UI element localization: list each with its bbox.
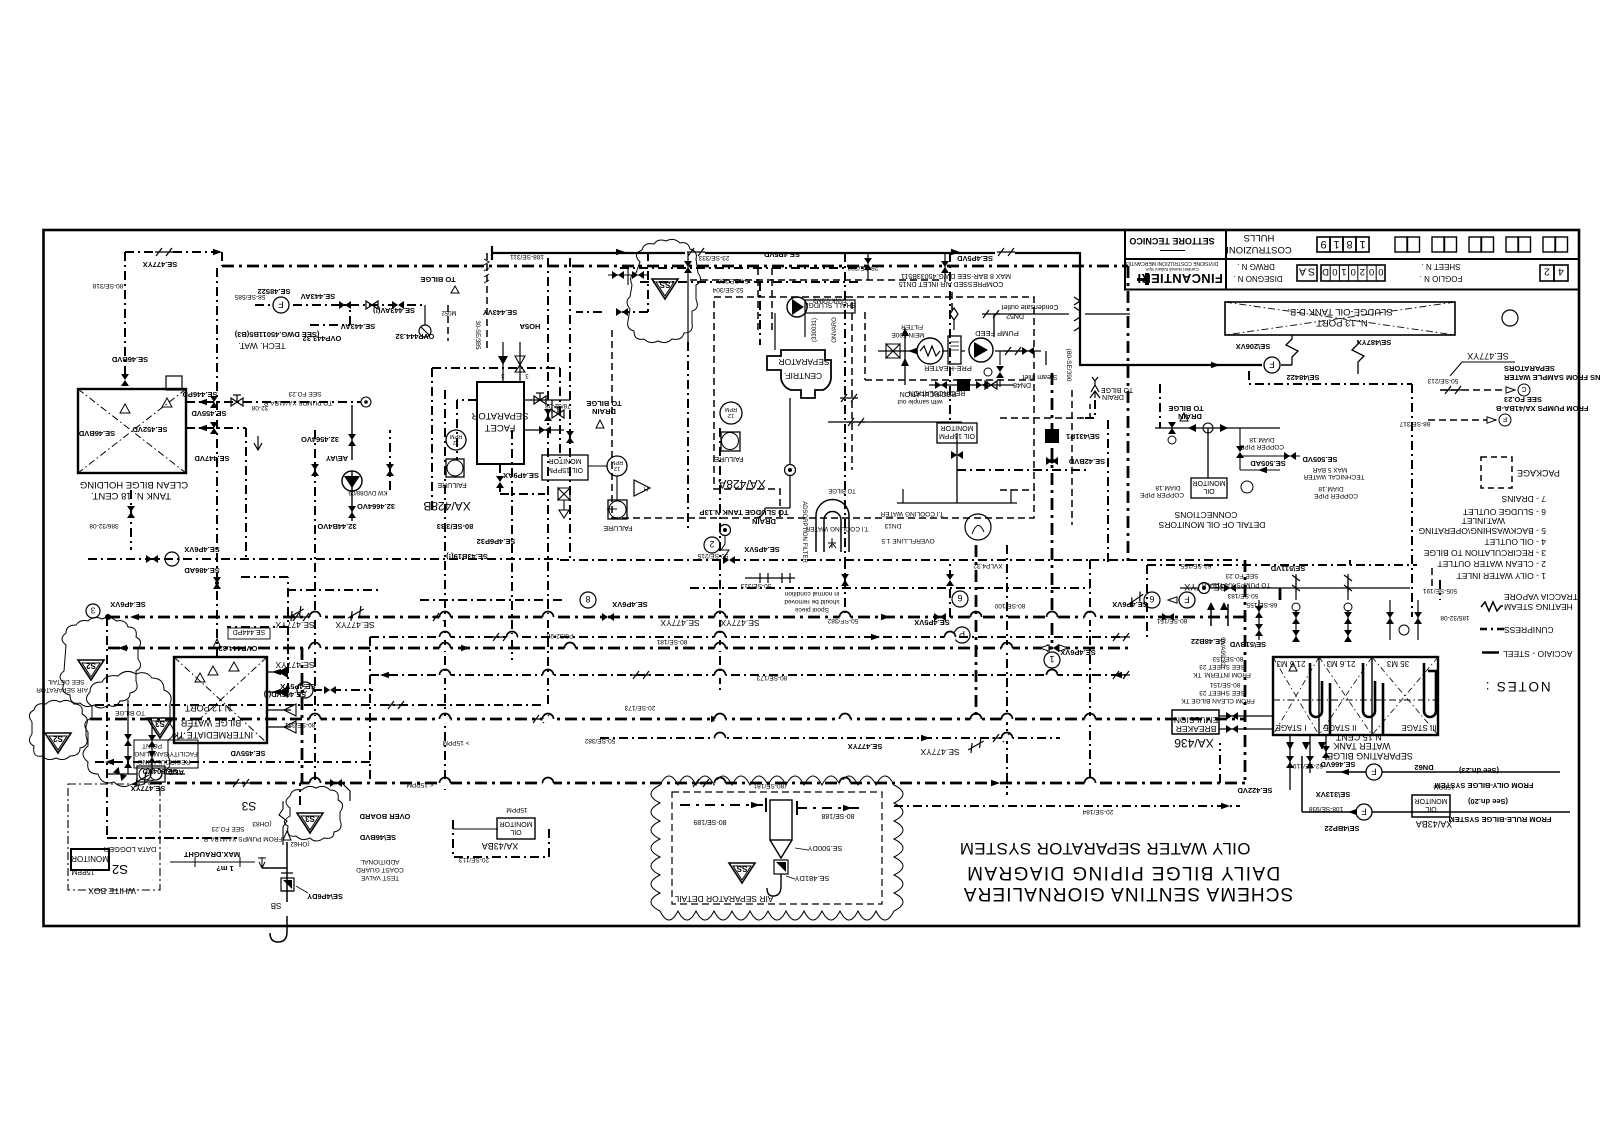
svg-text:SE.4P6VX: SE.4P6VX [184,545,219,554]
svg-text:COPPER PIPE: COPPER PIPE [1313,492,1358,499]
svg-text:9: 9 [1320,238,1326,250]
svg-text:SE.447VD: SE.447VD [194,454,230,463]
svg-text:II STAGE: II STAGE [1323,723,1356,732]
svg-text:SE.455VD: SE.455VD [230,749,266,758]
svg-text:SE\4P6DY: SE\4P6DY [307,892,343,901]
svg-text:III STAGE: III STAGE [1401,723,1436,732]
svg-text:SE.477YX: SE.477YX [275,620,315,630]
svg-text:DRAIN: DRAIN [1102,393,1124,400]
svg-text:1: 1 [1341,266,1346,277]
svg-text:BREAKER: BREAKER [1176,724,1217,734]
svg-text:0: 0 [1378,266,1383,277]
svg-text:DIAM.18: DIAM.18 [1155,484,1181,491]
svg-text:OVP443.32: OVP443.32 [303,334,342,343]
svg-text:T.I COOLING WATER: T.I COOLING WATER [880,510,944,517]
svg-text:FOGLIO N .: FOGLIO N . [1420,274,1463,283]
svg-text:188-SE/311: 188-SE/311 [510,253,544,260]
svg-text:FACILITY\SAMPLING: FACILITY\SAMPLING [134,750,198,757]
svg-text:Condensate outlet: Condensate outlet [1002,303,1059,310]
svg-text:3: 3 [90,606,95,615]
svg-text:SE.4P5VX: SE.4P5VX [744,545,779,554]
svg-text:SEE FO.23: SEE FO.23 [288,390,321,397]
svg-text:T.I COOLING WATER: T.I COOLING WATER [805,525,869,532]
svg-text:SEPARATING BILGE: SEPARATING BILGE [1327,751,1413,761]
svg-text:DETAIL OF OIL MONITORS: DETAIL OF OIL MONITORS [1158,520,1265,530]
svg-text:SE.505AD: SE.505AD [1250,459,1286,468]
svg-text:ONVARO: ONVARO [832,317,838,343]
svg-text:CLEAN BILGE HOLDING: CLEAN BILGE HOLDING [80,479,188,490]
svg-text:with sample out: with sample out [897,398,943,405]
svg-text:5 - BACKWASHING\OPERATING: 5 - BACKWASHING\OPERATING [1418,526,1546,536]
svg-text:S2: S2 [53,734,63,743]
svg-text:20-SE/113: 20-SE/113 [458,856,489,863]
svg-text:SE.500DY: SE.500DY [807,844,842,853]
svg-text:SCHEMA SENTINA GIORNALIERA: SCHEMA SENTINA GIORNALIERA [963,883,1294,904]
svg-text:RECIRCULATING: RECIRCULATING [138,758,191,765]
svg-text:SE.46BVD: SE.46BVD [111,355,148,364]
svg-text:21.6 M3: 21.6 M3 [1326,659,1355,668]
svg-text:SE.4P5VD: SE.4P5VD [763,250,799,259]
svg-text:DAILY BILGE PIPING DIAGRAM: DAILY BILGE PIPING DIAGRAM [966,862,1280,883]
svg-text:78/32-08: 78/32-08 [545,402,571,409]
svg-text:2 - CLEAN WATER OUTLET: 2 - CLEAN WATER OUTLET [1437,559,1546,569]
svg-text:80-SE/153: 80-SE/153 [1212,655,1243,662]
svg-text:RPM: RPM [449,433,462,439]
svg-text:15PPM: 15PPM [71,868,94,875]
svg-text:CUNIPRESS: CUNIPRESS [1504,625,1554,635]
svg-text:AIR SEPARATOR: AIR SEPARATOR [36,686,88,693]
svg-text:FROM OILY-BILGE SYSTEM: FROM OILY-BILGE SYSTEM [1435,781,1534,790]
svg-text:80-SE/188: 80-SE/188 [821,812,854,819]
svg-text:HO5A: HO5A [519,322,540,331]
svg-text:SHEET N .: SHEET N . [1422,262,1461,271]
svg-text:SE\487YX: SE\487YX [1357,338,1392,347]
svg-text:SEE FO.23: SEE FO.23 [211,825,244,832]
svg-text:M052: M052 [441,309,457,315]
svg-text:2: 2 [1544,266,1550,278]
svg-text:AE\AY: AE\AY [326,454,348,463]
svg-text:SE.477YX: SE.477YX [143,260,178,269]
svg-text:1: 1 [1333,238,1339,250]
svg-text:80-SE/173: 80-SE/173 [756,674,787,681]
svg-text:SE.466VD: SE.466VD [1320,760,1356,769]
svg-text:OIL: OIL [1203,487,1214,494]
svg-text:AIR SEPARATOR DETAIL: AIR SEPARATOR DETAIL [674,894,773,904]
svg-text:XA/43BA: XA/43BA [1416,819,1453,829]
svg-text:SE.477YX: SE.477YX [920,747,960,757]
svg-text:PRE-HEATER: PRE-HEATER [924,364,972,373]
svg-text:12: 12 [728,412,734,418]
svg-text:20-SE/184: 20-SE/184 [1082,808,1113,815]
svg-text:SLUDGE-OIL TANK D.B.: SLUDGE-OIL TANK D.B. [1287,306,1392,317]
svg-text:SS: SS [736,864,747,873]
svg-text:COSTRUZIONI: COSTRUZIONI [1226,244,1291,255]
svg-text:SE.422VD: SE.422VD [1237,786,1273,795]
svg-text:OVERFL.LINE 1.5: OVERFL.LINE 1.5 [881,537,934,544]
svg-text:SE.443VY: SE.443VY [483,308,518,317]
svg-text:SE.443AV(!): SE.443AV(!) [373,306,415,315]
svg-text:1: 1 [1049,654,1054,664]
svg-text:S3: S3 [241,799,256,813]
svg-text:P: P [959,629,965,639]
svg-text:15PPM: 15PPM [506,806,527,813]
svg-text:0: 0 [1351,266,1356,277]
svg-text:SE\511VD: SE\511VD [1270,564,1305,573]
svg-text:< 15PPM: < 15PPM [407,781,434,788]
svg-text:HEATING STEAM: HEATING STEAM [1504,602,1573,612]
svg-text:50-SE/183: 50-SE/183 [1227,592,1258,599]
svg-text:68-SE/155: 68-SE/155 [1246,601,1277,608]
svg-text:SEE DETAIL: SEE DETAIL [47,678,84,685]
svg-text:XVLP4.32: XVLP4.32 [973,562,1003,569]
svg-text:TECHNICAL WATER: TECHNICAL WATER [1303,473,1364,480]
svg-text:88-SE/317: 88-SE/317 [1399,420,1430,427]
svg-text:80-SE/151: 80-SE/151 [1209,681,1240,688]
svg-text:SE.443AV: SE.443AV [341,322,375,331]
svg-text:SE.48B22: SE.48B22 [1191,637,1225,646]
svg-text:SE.477YX: SE.477YX [848,742,883,751]
svg-text:TO BILGE: TO BILGE [114,709,145,716]
svg-text:FROM PUMPS XA/41BA-B: FROM PUMPS XA/41BA-B [204,835,283,842]
svg-text:FAILURE: FAILURE [603,524,633,531]
svg-text:4 - OIL OUTLET: 4 - OIL OUTLET [1484,537,1546,547]
svg-text:SETTORE TECNICO: SETTORE TECNICO [1129,236,1214,246]
svg-text:SE.477YX: SE.477YX [720,618,760,628]
svg-text:DRAINS FROM SAMPLE WATER: DRAINS FROM SAMPLE WATER [1503,373,1600,382]
svg-text:HULLS: HULLS [1244,232,1275,243]
svg-text:30-SE/3B5: 30-SE/3B5 [474,320,480,350]
svg-text:MONITOR: MONITOR [549,457,582,464]
svg-text:SE.4P6P32: SE.4P6P32 [477,537,516,546]
svg-text:SEE SHEET 23: SEE SHEET 23 [1199,663,1245,670]
svg-text:C: C [1521,385,1526,392]
svg-text:SE.4P6VX: SE.4P6VX [1112,600,1147,609]
svg-text:8: 8 [1346,238,1352,250]
svg-text:XA/428B: XA/428B [423,499,470,513]
svg-text:INTERMEDIATE TK: INTERMEDIATE TK [173,730,253,740]
svg-text:(OH83: (OH83 [252,820,272,827]
svg-text:MAX.DRAUGHT: MAX.DRAUGHT [183,850,240,859]
svg-text:1 - OILY WATER INLET: 1 - OILY WATER INLET [1457,571,1546,581]
svg-text:80-SE/189: 80-SE/189 [693,818,726,825]
svg-text:SE.486AD: SE.486AD [184,566,220,575]
svg-text:COPPER PIPE: COPPER PIPE [1139,491,1184,498]
svg-text:TO SLUDGE TANK N.13P: TO SLUDGE TANK N.13P [700,508,789,517]
svg-text:FROM RULE-BILGE SYSTEM: FROM RULE-BILGE SYSTEM [1449,815,1552,824]
svg-text:SE.444PD: SE.444PD [233,628,266,635]
svg-text:D: D [1322,266,1329,277]
svg-text:XA/436: XA/436 [1174,736,1214,750]
svg-text:32.4564VO: 32.4564VO [301,435,339,444]
svg-text:A: A [1299,266,1306,278]
svg-text:P8/32-98: P8/32-98 [546,632,573,639]
svg-text:DIVISIONE COSTRUZIONI MERCANTI: DIVISIONE COSTRUZIONI MERCANTILI [1126,260,1219,266]
svg-text:TECH. WAT.: TECH. WAT. [238,341,285,351]
svg-text:PUMP FEED: PUMP FEED [975,329,1019,338]
svg-text:50-SE/213: 50-SE/213 [1427,377,1458,384]
svg-text:DISEGNO N .: DISEGNO N . [1233,274,1282,283]
svg-text:OIL: OIL [510,828,521,835]
svg-text:SE.42BVD: SE.42BVD [1068,457,1105,466]
svg-text:TO PUMPS XA/41BA-B: TO PUMPS XA/41BA-B [1202,581,1271,588]
svg-text:TEST VALVE: TEST VALVE [360,874,399,881]
svg-text:6 - SLUDGE OUTLET: 6 - SLUDGE OUTLET [1463,507,1546,517]
svg-text:TO BILGE: TO BILGE [586,399,621,408]
svg-text:TO BILGE: TO BILGE [1168,404,1203,413]
svg-text:0: 0 [1369,266,1374,277]
svg-text:SE.477YX: SE.477YX [275,660,315,670]
svg-text:DRWG N .: DRWG N . [1237,262,1275,271]
svg-text:1: 1 [1359,238,1365,250]
svg-text:S: S [1308,266,1315,278]
svg-text:OVER BOARD: OVER BOARD [359,812,410,821]
svg-text:SE\4BP22: SE\4BP22 [1324,824,1359,833]
svg-text:(See dn.20): (See dn.20) [1467,797,1508,806]
svg-text:SE\206VX: SE\206VX [1236,342,1271,351]
svg-text:DN13: DN13 [884,522,901,529]
svg-text:DATA LOGGER: DATA LOGGER [103,845,156,854]
svg-text:WHITE BOX: WHITE BOX [88,886,136,896]
svg-text:62-SE/119: 62-SE/119 [1292,762,1323,769]
svg-text:SEPARATORS: SEPARATORS [1504,364,1555,373]
svg-text:should be removed: should be removed [784,598,840,605]
svg-text:SE\431P1: SE\431P1 [1066,432,1100,441]
svg-text:FILTER: FILTER [901,323,923,330]
svg-text:SEPARATOR: SEPARATOR [778,357,829,367]
svg-text:CONNECTIONS: CONNECTIONS [1174,510,1237,520]
svg-text:SE\313VX: SE\313VX [1316,790,1351,799]
svg-text:OILY WATER SEPARATOR SYSTEM: OILY WATER SEPARATOR SYSTEM [960,839,1251,858]
svg-text:SE\46BVD: SE\46BVD [359,833,396,842]
svg-text:N. 13 PORT: N. 13 PORT [1316,317,1368,328]
svg-text:2: 2 [1360,266,1365,277]
svg-text:35 M3: 35 M3 [1386,659,1409,668]
svg-text:2: 2 [709,539,714,549]
svg-text:(OH62: (OH62 [290,840,310,847]
svg-text:MAX 5 BAR: MAX 5 BAR [1312,466,1347,473]
svg-text:MAX 8 BAR-SEE DWG.45033B511: MAX 8 BAR-SEE DWG.45033B511 [901,272,1011,279]
svg-text:RECIRCULATION: RECIRCULATION [900,390,957,397]
svg-text:CENTRIF.: CENTRIF. [784,371,822,381]
svg-text:32.44B4VO: 32.44B4VO [317,522,356,531]
svg-text:TO BILGE: TO BILGE [420,275,455,284]
svg-text:FAILURE: FAILURE [437,481,467,488]
svg-text:7 - DRAINS: 7 - DRAINS [1501,494,1546,504]
svg-text:SE.477YX: SE.477YX [1467,351,1509,361]
svg-text:54-SE/300: 54-SE/300 [717,277,748,284]
svg-text:386/32-08: 386/32-08 [89,522,119,529]
svg-text:> 15PPM: > 15PPM [443,739,470,746]
svg-text:3 - RECIRCULATION TO BILGE: 3 - RECIRCULATION TO BILGE [1423,548,1546,558]
svg-text:OVP444.32: OVP444.32 [396,332,435,341]
svg-text:SE.477YX: SE.477YX [335,620,375,630]
svg-text:FAILURE: FAILURE [714,455,744,462]
svg-text:MEIN.500E: MEIN.500E [891,331,925,338]
svg-text:(80-SE/181: (80-SE/181 [753,782,786,789]
svg-text:185/32-08: 185/32-08 [1440,614,1470,621]
svg-text:SE.4P6VX: SE.4P6VX [110,600,145,609]
svg-text:32-08: 32-08 [251,404,268,411]
svg-text:DN48: DN48 [1013,381,1031,388]
svg-text:SE.455VD: SE.455VD [191,409,227,418]
svg-text:TO BILGE: TO BILGE [1101,386,1133,393]
svg-text:62-SE/155: 62-SE/155 [1180,562,1211,569]
svg-text:52-SE/304: 52-SE/304 [712,286,743,293]
svg-text:DN62: DN62 [1414,763,1433,772]
svg-text:SEPARATOR: SEPARATOR [471,410,528,421]
svg-text:SE\48422: SE\48422 [1287,373,1320,382]
svg-text:MONITOR: MONITOR [941,424,974,431]
svg-text:NOTES :: NOTES : [1484,679,1551,694]
svg-text:108-SE/938: 108-SE/938 [1308,805,1343,812]
svg-text:FINCANTIERI: FINCANTIERI [1137,271,1223,286]
svg-text:(330031): (330031) [812,318,818,342]
svg-text:32.4664VO: 32.4664VO [357,502,395,511]
svg-text:KW DVD88/09: KW DVD88/09 [348,489,388,495]
svg-text:XA/428A: XA/428A [718,477,765,491]
svg-text:SE.481DY: SE.481DY [794,874,829,883]
svg-text:DIAM.18: DIAM.18 [1318,485,1344,492]
svg-text:23-SE/333: 23-SE/333 [698,254,729,261]
svg-text:50-SE/382: 50-SE/382 [584,737,615,744]
svg-text:F: F [1503,415,1507,422]
svg-text:DIAM.18: DIAM.18 [1249,436,1275,443]
svg-text:MONITOR: MONITOR [1193,479,1226,486]
svg-text:TO BILGE: TO BILGE [828,487,856,493]
svg-text:DRAIN: DRAIN [1178,412,1202,421]
svg-text:80-SE/100: 80-SE/100 [994,602,1025,609]
svg-text:S2: S2 [112,862,128,877]
svg-text:in normal condition: in normal condition [784,590,839,597]
svg-text:OIL: OIL [1425,805,1436,812]
svg-text:SE.46BVD: SE.46BVD [78,429,115,438]
svg-text:TRACCIA VAPORE: TRACCIA VAPORE [1504,592,1578,602]
svg-text:58-SE/585: 58-SE/585 [234,293,265,300]
svg-text:OVP444.32: OVP444.32 [219,644,258,653]
svg-text:SE.4P9AX: SE.4P9AX [503,471,539,480]
svg-text:SE.477YX: SE.477YX [660,618,700,628]
svg-text:I STAGE: I STAGE [1276,723,1307,732]
svg-text:RPM: RPM [724,406,737,412]
svg-text:MONITOR: MONITOR [1415,797,1448,804]
svg-text:ADDITIONAL: ADDITIONAL [360,858,399,865]
svg-text:6: 6 [1149,594,1154,604]
svg-text:OIL 15PPM: OIL 15PPM [547,466,583,473]
svg-text:SE.505VD: SE.505VD [1302,455,1338,464]
svg-text:50-SE/313: 50-SE/313 [740,582,771,589]
svg-text:80-SE/318: 80-SE/318 [92,282,123,289]
svg-text:SE.446PD: SE.446PD [182,390,218,399]
svg-text:SEE FO.23: SEE FO.23 [1504,395,1542,404]
svg-text:(80-SE/390: (80-SE/390 [1065,349,1072,382]
svg-text:12: 12 [614,465,620,471]
svg-text:FROM INTERM. TK: FROM INTERM. TK [1193,671,1251,678]
svg-text:SE.443AV: SE.443AV [301,292,335,301]
svg-text:SB: SB [271,901,282,910]
svg-text:FACET: FACET [485,422,516,433]
svg-text:80-SE/3B3: 80-SE/3B3 [437,522,474,531]
svg-text:80-SE/181: 80-SE/181 [656,638,687,645]
svg-text:PACKAGE: PACKAGE [1517,468,1560,478]
svg-text:4: 4 [1558,266,1564,278]
svg-text:FROM PUMPS XA/41BA-B: FROM PUMPS XA/41BA-B [1495,404,1588,413]
svg-text:N.15 CENT.: N.15 CENT. [1334,732,1382,742]
svg-text:SE.4P6VX: SE.4P6VX [612,600,647,609]
svg-text:Spool piece: Spool piece [795,606,829,613]
svg-text:(See dn.23): (See dn.23) [1458,766,1499,775]
svg-text:MONITOR: MONITOR [500,820,533,827]
svg-text:DRAIN: DRAIN [752,517,776,526]
svg-text:0: 0 [1332,266,1337,277]
svg-text:20-SE/173: 20-SE/173 [624,704,655,711]
svg-text:6: 6 [957,593,962,603]
svg-text:H: H [644,485,648,491]
svg-text:SE.452VD: SE.452VD [132,425,168,434]
svg-text:1 m?: 1 m? [216,864,234,873]
svg-text:POINT: POINT [142,742,162,749]
svg-text:25-SE/333: 25-SE/333 [847,264,878,271]
svg-text:SEE SHEET 23: SEE SHEET 23 [1199,689,1245,696]
svg-text:XA/43BA: XA/43BA [482,841,519,851]
svg-text:S2: S2 [86,661,96,670]
svg-text:DN52: DN52 [1006,312,1024,319]
svg-text:ACCIAIO - STEEL: ACCIAIO - STEEL [1503,649,1573,659]
svg-text:80-SE/151: 80-SE/151 [1156,617,1187,624]
svg-text:8: 8 [585,594,590,604]
svg-text:MONITOR: MONITOR [71,854,109,863]
svg-text:COPPER PIPE: COPPER PIPE [1239,443,1284,450]
svg-text:SE\51BVD: SE\51BVD [1229,640,1266,649]
svg-text:TO PUMPS XA/41BA-B: TO PUMPS XA/41BA-B [264,399,333,406]
svg-text:S3: S3 [305,814,315,823]
svg-text:SEE FO.23: SEE FO.23 [1225,572,1258,579]
svg-text:SE.4P5VD: SE.4P5VD [956,254,992,263]
svg-text:COAST GUARD: COAST GUARD [356,866,404,873]
